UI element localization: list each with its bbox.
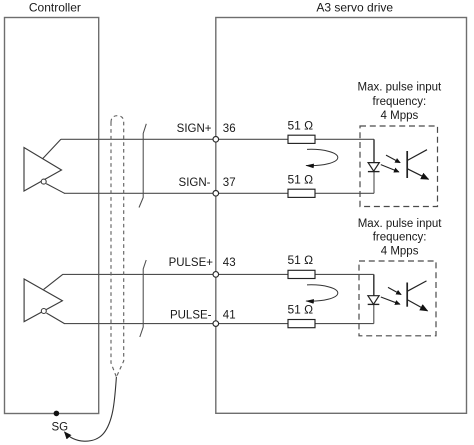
resistor R3 51Ω — [288, 253, 316, 278]
A3 servo drive box — [216, 18, 467, 414]
wire SIGN- right — [315, 192, 374, 194]
svg-text:37: 37 — [223, 177, 236, 189]
svg-text:51 Ω: 51 Ω — [288, 119, 314, 133]
controller box — [5, 18, 99, 414]
label SG — [52, 421, 69, 433]
pin 37 terminal — [213, 191, 219, 197]
label Controller — [29, 0, 81, 14]
label max pulse input frequency 1 — [358, 82, 443, 122]
pin 37 number — [223, 177, 236, 189]
label SIGN+ — [177, 123, 212, 135]
shield capsule (dashed cable shield) — [111, 116, 124, 377]
wire PULSE+ right — [315, 273, 374, 275]
twisted pair slash (PULSE pair) — [140, 260, 146, 337]
wire PULSE- left — [64, 323, 288, 325]
wire PULSE- right — [315, 323, 374, 325]
optocoupler U3 dashed box — [360, 126, 438, 207]
phototransistor Q2 — [407, 281, 427, 311]
shield-to-SG curve — [65, 377, 117, 441]
svg-text:41: 41 — [223, 309, 236, 321]
svg-text:4 Mpps: 4 Mpps — [381, 110, 419, 122]
wire SIGN- left — [64, 192, 288, 194]
label PULSE- — [170, 309, 212, 321]
svg-text:51 Ω: 51 Ω — [288, 172, 314, 186]
U1 inverting bubble — [41, 179, 46, 184]
label PULSE+ — [169, 257, 214, 269]
label SIGN- — [179, 177, 211, 189]
svg-text:Max. pulse input: Max. pulse input — [358, 218, 443, 230]
line driver U2 — [24, 274, 64, 323]
svg-text:PULSE-: PULSE- — [170, 309, 212, 321]
pin 41 number — [223, 309, 236, 321]
pin 43 number — [223, 257, 236, 269]
pin 36 terminal — [213, 137, 219, 143]
svg-text:4 Mpps: 4 Mpps — [381, 246, 419, 258]
twisted pair slash (SIGN pair) — [139, 124, 146, 208]
wire PULSE+ left — [63, 273, 289, 275]
svg-text:Controller: Controller — [29, 0, 81, 14]
resistor R2 51Ω — [288, 172, 316, 197]
SG ground dot — [54, 411, 60, 417]
phototransistor Q1 — [407, 150, 428, 180]
svg-text:frequency:: frequency: — [373, 96, 427, 108]
pin 36 number — [223, 123, 236, 135]
svg-text:43: 43 — [223, 257, 236, 269]
resistor R1 51Ω — [288, 119, 316, 144]
svg-text:SIGN-: SIGN- — [179, 177, 211, 189]
current loop arrow 2 — [306, 285, 338, 301]
svg-text:A3 servo drive: A3 servo drive — [316, 0, 393, 14]
LED D2 — [368, 296, 380, 305]
light arrows U3 — [381, 155, 400, 172]
svg-text:SIGN+: SIGN+ — [177, 123, 212, 135]
svg-text:51 Ω: 51 Ω — [288, 253, 314, 267]
svg-text:36: 36 — [223, 123, 236, 135]
label A3 servo drive — [316, 0, 393, 14]
svg-text:51 Ω: 51 Ω — [288, 303, 314, 317]
pin 41 terminal — [213, 321, 219, 327]
svg-text:SG: SG — [52, 421, 69, 433]
svg-text:Max. pulse input: Max. pulse input — [358, 82, 443, 94]
current loop arrow 1 — [306, 149, 338, 165]
svg-text:PULSE+: PULSE+ — [169, 257, 214, 269]
wire SIGN+ right — [315, 138, 374, 140]
opto U3 input wire — [373, 139, 375, 193]
svg-text:frequency:: frequency: — [373, 232, 427, 244]
pin 43 terminal — [213, 272, 219, 278]
optocoupler U4 dashed box — [359, 261, 436, 336]
resistor R4 51Ω — [288, 303, 316, 328]
label max pulse input frequency 2 — [358, 218, 443, 258]
wire SIGN+ left — [61, 138, 288, 140]
LED D1 — [368, 163, 380, 172]
light arrows U4 — [381, 287, 401, 304]
line driver U1 — [24, 139, 65, 193]
U2 inverting bubble — [41, 309, 46, 314]
opto U4 input wire — [373, 274, 375, 323]
